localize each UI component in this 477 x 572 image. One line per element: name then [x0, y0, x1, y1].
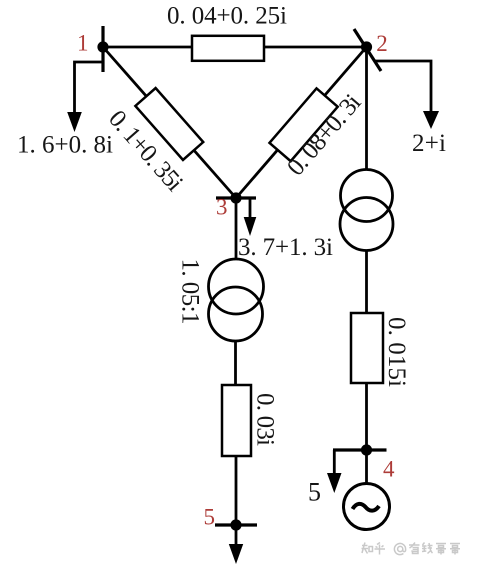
svg-text:1. 6+0. 8i: 1. 6+0. 8i [17, 132, 113, 159]
load at node 4: wire [333, 450, 336, 474]
generator G (AC source) [344, 484, 390, 530]
wire R4 to node 4 [365, 383, 368, 450]
load at node 1: wire [75, 62, 104, 113]
bus bar node 1 [101, 26, 104, 72]
svg-text:3: 3 [216, 195, 228, 220]
transformer T1 coil 1 [209, 259, 264, 314]
load at node 2: wire [374, 61, 431, 112]
bus bar node 5 [215, 523, 257, 526]
node 1 junction dot [97, 41, 108, 52]
transformer T2 coil 2 [340, 198, 393, 251]
svg-text:0. 015i: 0. 015i [383, 317, 410, 387]
svg-text:5: 5 [308, 478, 321, 507]
load at node 3: wire [249, 198, 252, 218]
wire T1 to resistor R5 [234, 341, 237, 386]
resistor R4 0.015i [351, 313, 383, 383]
wire node 4 to generator [365, 450, 368, 485]
bus bar node 4 [333, 448, 387, 451]
transformer T2 coil 1 [341, 170, 393, 222]
svg-text:0. 04+0. 25i: 0. 04+0. 25i [167, 3, 287, 30]
node 5 junction dot [230, 519, 241, 530]
node 3 junction dot [230, 192, 241, 203]
svg-text:1. 05:1: 1. 05:1 [177, 259, 204, 325]
transformer T1 coil 2 [209, 287, 263, 341]
node 5 arrowhead [229, 544, 243, 564]
wire bus2 to bus3 diagonal [236, 47, 367, 198]
node 2 junction dot [361, 41, 372, 52]
svg-text:3. 7+1. 3i: 3. 7+1. 3i [238, 234, 333, 261]
resistor R12 0.04+0.25i [192, 36, 264, 61]
resistor R23 0.08+0.3i [269, 88, 337, 161]
svg-text:4: 4 [383, 457, 395, 482]
svg-text:1: 1 [77, 31, 89, 56]
generator sine symbol [353, 504, 380, 511]
wire T2 to resistor R4 [365, 250, 368, 313]
svg-text:2+i: 2+i [412, 130, 446, 157]
bus bar node 3 [216, 196, 256, 199]
node 5 arrow wire [235, 525, 238, 545]
wire node2 down to transformer T2 [365, 47, 368, 170]
load at node 1: arrowhead [67, 112, 82, 132]
wire bus1 to bus3 diagonal [103, 47, 236, 198]
wire node3 down to transformer T1 [235, 198, 238, 259]
load at node 4: arrowhead [327, 473, 342, 493]
watermark 知乎 @有钱哥哥 [362, 543, 461, 555]
wire bus1-bus2 horizontal [103, 46, 367, 49]
svg-text:5: 5 [204, 505, 216, 530]
svg-text:0. 03i: 0. 03i [252, 393, 279, 446]
node 4 junction dot [361, 444, 372, 455]
svg-text:2: 2 [376, 31, 388, 56]
wire R5 to node 5 [235, 456, 238, 525]
resistor R13 0.1+0.35i [135, 88, 203, 160]
load at node 2: arrowhead [423, 111, 439, 129]
resistor R5 0.03i [222, 385, 251, 456]
load at node 3: arrowhead [244, 217, 257, 236]
bus bar node 2 (diagonal slash) [354, 29, 381, 71]
